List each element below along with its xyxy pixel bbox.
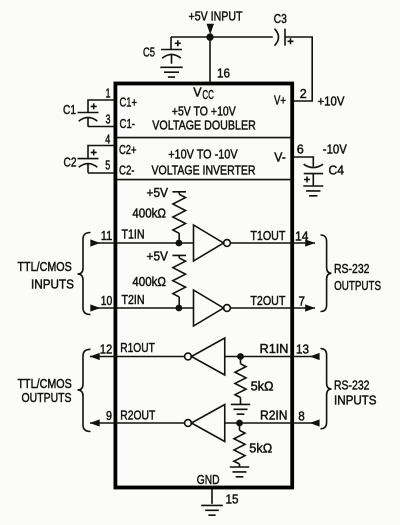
svg-text:+5V INPUT: +5V INPUT [189,10,243,24]
svg-text:V: V [193,86,202,100]
svg-text:T1OUT: T1OUT [250,229,285,243]
svg-text:2: 2 [300,87,307,101]
svg-text:8: 8 [298,410,305,424]
svg-text:GND: GND [197,473,220,487]
svg-text:3: 3 [106,113,111,127]
svg-text:13: 13 [296,343,309,357]
svg-text:-10V: -10V [323,143,348,157]
svg-text:RS-232: RS-232 [334,379,370,393]
svg-text:C4: C4 [329,164,345,178]
svg-text:11: 11 [101,229,113,243]
svg-text:400kΩ: 400kΩ [132,275,166,289]
svg-text:9: 9 [106,409,112,423]
svg-text:OUTPUTS: OUTPUTS [334,279,381,293]
svg-text:+5V: +5V [147,186,169,200]
svg-text:C2+: C2+ [119,143,137,157]
svg-text:T2IN: T2IN [122,293,145,307]
svg-text:400kΩ: 400kΩ [132,207,166,221]
svg-text:C1: C1 [63,103,76,117]
svg-text:RS-232: RS-232 [334,262,370,276]
svg-text:C1-: C1- [120,117,136,131]
svg-text:5kΩ: 5kΩ [251,380,274,394]
svg-text:R2IN: R2IN [260,409,288,423]
svg-text:TTL/CMOS: TTL/CMOS [18,377,72,391]
svg-text:12: 12 [100,343,113,357]
svg-text:R2OUT: R2OUT [120,409,155,423]
svg-text:T2OUT: T2OUT [250,294,285,308]
svg-text:+5V: +5V [147,250,169,264]
svg-text:6: 6 [297,143,304,157]
svg-text:T1IN: T1IN [122,228,145,242]
svg-text:+5V TO +10V: +5V TO +10V [172,104,237,118]
svg-text:10: 10 [101,294,113,308]
svg-text:INPUTS: INPUTS [334,393,377,407]
svg-text:C1+: C1+ [120,96,138,110]
svg-text:VOLTAGE DOUBLER: VOLTAGE DOUBLER [152,119,256,133]
svg-text:TTL/CMOS: TTL/CMOS [18,260,72,274]
svg-text:+10V TO -10V: +10V TO -10V [168,147,238,161]
svg-text:C3: C3 [274,12,287,26]
svg-text:+10V: +10V [318,95,346,109]
svg-text:16: 16 [217,67,230,81]
svg-text:4: 4 [105,133,110,147]
svg-text:7: 7 [299,295,306,309]
svg-text:C2-: C2- [119,163,135,177]
svg-text:5kΩ: 5kΩ [249,442,272,456]
svg-text:1: 1 [106,87,111,101]
svg-text:C5: C5 [143,46,155,60]
svg-text:CC: CC [202,88,214,102]
svg-text:VOLTAGE INVERTER: VOLTAGE INVERTER [152,163,256,177]
svg-text:INPUTS: INPUTS [31,277,74,291]
svg-text:14: 14 [295,230,309,244]
svg-text:OUTPUTS: OUTPUTS [22,391,72,405]
svg-text:V-: V- [274,151,286,165]
svg-text:R1IN: R1IN [260,342,289,356]
svg-text:C2: C2 [64,156,77,170]
svg-text:15: 15 [226,493,239,507]
svg-text:V+: V+ [274,94,286,108]
svg-text:R1OUT: R1OUT [120,341,155,355]
svg-text:5: 5 [105,159,110,173]
